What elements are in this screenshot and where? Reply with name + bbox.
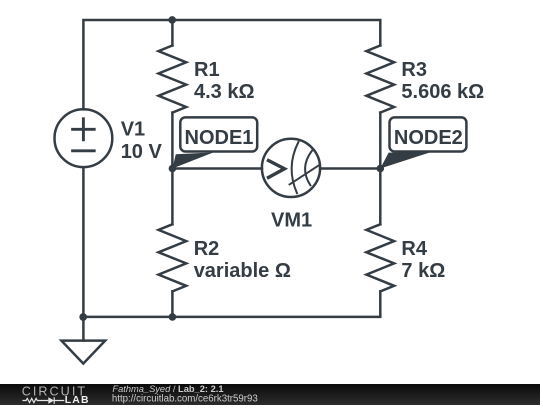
VM1 meter arc right	[305, 151, 312, 186]
svg-text:4.3 kΩ: 4.3 kΩ	[194, 81, 255, 103]
NODE1 flag box	[180, 117, 257, 151]
CircuitLab logo: resistor-diode squiggle	[23, 397, 65, 404]
resistor R4	[366, 224, 394, 291]
V1 minus sign	[73, 149, 95, 152]
wire: voltmeter right terminal to NODE2	[320, 167, 380, 170]
node NODE1 junction dot	[169, 165, 177, 173]
svg-text:http://circuitlab.com/ce6rk3tr: http://circuitlab.com/ce6rk3tr59r93	[112, 394, 258, 405]
wire: R2 bottom lead to bottom rail	[171, 291, 174, 317]
resistor R2	[159, 224, 187, 291]
svg-text:10 V: 10 V	[121, 141, 163, 163]
node junction dot: ground / bottom rail	[79, 313, 87, 321]
NODE2 flag box	[390, 117, 467, 151]
resistor R1	[159, 46, 187, 113]
wire: R2 top lead from NODE1	[171, 169, 174, 225]
voltmeter VM1 circle	[262, 139, 320, 197]
V1 plus sign	[73, 119, 95, 140]
NODE1 flag pointer wedge	[172, 152, 213, 168]
NODE2 flag pointer wedge	[380, 152, 431, 168]
svg-text:R4: R4	[401, 238, 427, 260]
resistor R3	[366, 46, 394, 113]
CircuitLab logo: diode triangle	[48, 397, 54, 404]
VM1 needle	[290, 166, 319, 185]
node junction dot: bottom rail / R2	[169, 313, 177, 321]
svg-text:LAB: LAB	[65, 395, 90, 405]
ground stem	[82, 317, 85, 341]
svg-text:variable Ω: variable Ω	[194, 260, 291, 282]
svg-text:R3: R3	[401, 59, 427, 81]
svg-text:R1: R1	[194, 59, 220, 81]
VM1 greater-than marker	[269, 161, 285, 178]
svg-text:NODE2: NODE2	[394, 127, 463, 149]
node NODE2 junction dot	[377, 165, 385, 173]
wire: R1 top lead from top rail	[171, 20, 174, 46]
wire: R4 bottom lead, bottom rail, and V1 bottom lead	[83, 167, 380, 317]
svg-text:VM1: VM1	[271, 209, 312, 231]
svg-text:7 kΩ: 7 kΩ	[401, 260, 445, 282]
ground triangle	[61, 341, 105, 364]
wire: R1 bottom lead to NODE1	[171, 113, 174, 169]
wire: R4 top lead from NODE2	[379, 169, 382, 225]
wire: left rail and top rail from V1 top to R3 top corner	[83, 20, 380, 109]
svg-text:NODE1: NODE1	[185, 127, 254, 149]
wire: NODE1 to voltmeter left terminal	[172, 167, 262, 170]
svg-text:Fathma_Syed / Lab_2: 2.1: Fathma_Syed / Lab_2: 2.1	[112, 384, 223, 394]
svg-text:V1: V1	[121, 119, 145, 141]
svg-text:5.606 kΩ: 5.606 kΩ	[401, 81, 484, 103]
svg-text:R2: R2	[194, 238, 220, 260]
wire: R3 bottom lead to NODE2	[379, 113, 382, 169]
node junction dot: top rail / R1	[168, 16, 176, 24]
voltage source V1 circle	[55, 109, 113, 167]
VM1 meter arc left	[292, 142, 299, 193]
